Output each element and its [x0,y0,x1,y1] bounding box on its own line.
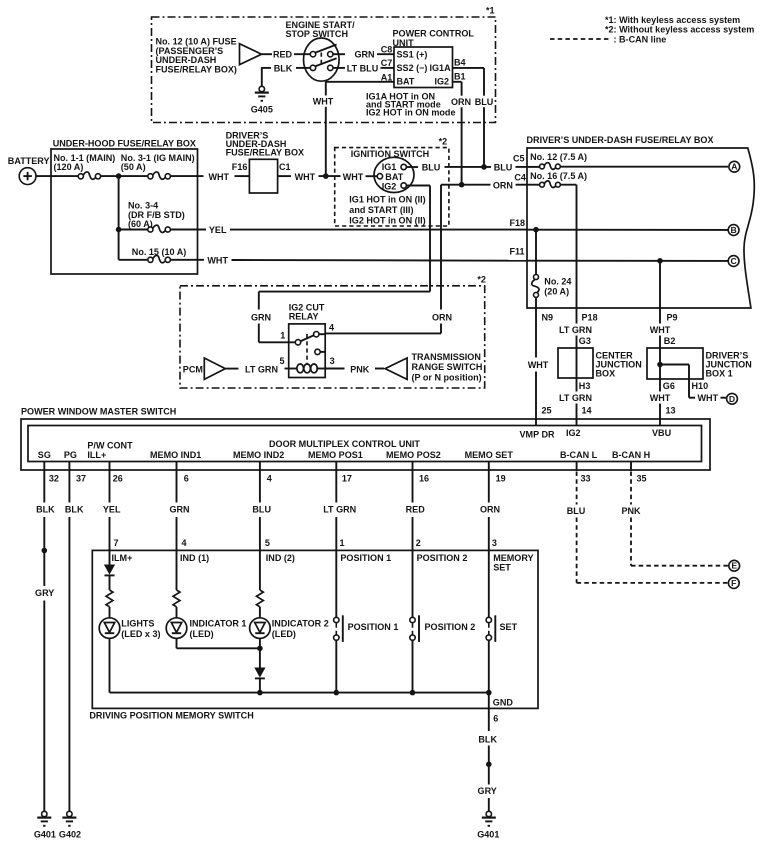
svg-text:33: 33 [581,474,591,484]
svg-text:13: 13 [666,405,676,415]
svg-text:GND: GND [493,697,514,707]
wire IG2 to relay (GRN) [251,186,430,343]
fuse No.1-1 (MAIN) 120A [54,153,116,179]
fuse No.12 7.5A [527,152,587,169]
pin C8 [381,45,393,55]
svg-text:3: 3 [330,356,335,366]
pin GND / 6 [489,693,514,731]
wire WHT row1 to F16 [170,172,249,182]
svg-text:SET: SET [493,563,511,573]
power window master switch box [21,407,710,470]
ground G401 (center) [477,811,499,839]
svg-text:GRY: GRY [478,786,497,796]
pin C7 [381,58,393,68]
pin B2 [664,336,676,346]
connector B [728,225,739,236]
svg-text:WHT: WHT [208,172,229,182]
transmission range switch triangle [385,352,482,383]
svg-text:LT GRN: LT GRN [559,325,592,335]
wire lights to gnd bus [109,638,111,692]
svg-text:VBU: VBU [652,428,671,438]
wire stub SG pin 32 / wire BLK GRY to G401 [35,462,59,812]
svg-text:BLU: BLU [252,505,271,515]
svg-text:(120 A): (120 A) [54,162,84,172]
power control unit U1 [393,29,475,88]
svg-text:7: 7 [114,538,119,548]
svg-text:STOP SWITCH: STOP SWITCH [286,29,349,39]
svg-text:SS2 (−): SS2 (−) [397,63,428,73]
wire indicator1 to junction [177,638,260,648]
svg-text:LT GRN: LT GRN [323,505,356,515]
wire GRN [333,50,394,60]
svg-text:DOOR MULTIPLEX CONTROL UNIT: DOOR MULTIPLEX CONTROL UNIT [269,439,420,449]
svg-text:*1: With keyless access system: *1: With keyless access system [605,15,740,25]
svg-text:No. 24: No. 24 [544,276,571,286]
wire BAT to A1 [326,80,394,82]
svg-text:ILL+: ILL+ [87,450,106,460]
pin MEMO IND2 [233,450,284,460]
svg-text:FUSE/RELAY BOX: FUSE/RELAY BOX [226,147,304,157]
wire stub MEMO IND2 pin 4 / wire BLU [252,462,271,551]
connector F [728,578,739,589]
svg-text:IND (1): IND (1) [180,553,209,563]
svg-text:C1: C1 [279,162,291,172]
svg-text:No. 15 (10 A): No. 15 (10 A) [132,247,186,257]
svg-text:WHT: WHT [207,256,228,266]
svg-text:(50 A): (50 A) [121,162,146,172]
svg-text:25: 25 [542,405,552,415]
svg-text:B2: B2 [664,336,676,346]
pin 5 IND (2) [265,538,295,563]
svg-text:B: B [730,225,736,235]
svg-text:5: 5 [265,538,270,548]
svg-text:YEL: YEL [103,505,121,515]
wire stub MEMO SET pin 19 / wire ORN [480,462,506,551]
svg-text:WHT: WHT [343,172,364,182]
svg-text:GRN: GRN [354,50,374,60]
LED indicator 2 [250,618,329,639]
svg-text:5: 5 [280,356,285,366]
svg-text:DRIVER’S UNDER-DASH FUSE/RELAY: DRIVER’S UNDER-DASH FUSE/RELAY BOX [527,135,714,145]
svg-text:G3: G3 [579,336,591,346]
svg-text:IG2: IG2 [435,77,450,87]
svg-text:4: 4 [267,474,272,484]
svg-text:(LED): (LED) [190,629,214,639]
driving position memory switch box [89,550,538,720]
svg-text:RED: RED [273,50,293,60]
enclosure box *2 (IG2 cut relay, dash-dot) [180,275,486,388]
svg-text:A1: A1 [381,72,393,82]
svg-text:P9: P9 [667,313,678,323]
pin G6 / wire WHT to pin 13 [650,379,676,426]
pin A1 [381,72,393,82]
note legend *1 [605,15,740,25]
svg-text:BLK: BLK [274,63,293,73]
svg-text:No. 12 (7.5 A): No. 12 (7.5 A) [530,152,587,162]
enclosure box *1 (keyless access system, dash-dot) [152,6,496,123]
pin 1 POSITION 1 [340,538,392,563]
center junction box [558,348,642,378]
svg-text:: B-CAN line: : B-CAN line [614,35,667,45]
driver's under-dash fuse/relay box (main) [527,135,755,308]
wire stub MEMO POS1 pin 17 / wire LT GRN [323,462,356,551]
svg-text:IG1: IG1 [382,162,397,172]
svg-text:INDICATOR 1: INDICATOR 1 [190,619,247,629]
wire to connector A [560,166,728,168]
pin F18 / wire to connector B [510,218,729,233]
svg-text:MEMO POS1: MEMO POS1 [308,450,363,460]
pin 2 POSITION 2 [416,538,468,563]
under-hood fuse/relay box [51,138,198,274]
svg-text:D: D [729,394,735,404]
svg-text:POSITION 1: POSITION 1 [348,622,399,632]
wire F18 down to fuse No.24 [535,230,537,275]
LED lights (LED x 3) [99,618,160,639]
svg-text:WHT: WHT [295,172,316,182]
pin MEMO POS1 [308,450,363,460]
pin MEMO IND1 [150,450,201,460]
diode D2 [254,668,265,693]
svg-text:ORN: ORN [480,505,500,515]
pin MEMO SET [465,450,514,460]
pin B-CAN H [612,450,650,460]
svg-text:RANGE SWITCH: RANGE SWITCH [412,362,483,372]
wire stub B-CAN L pin 33 / dashed BLU to connector F [567,462,728,583]
svg-text:WHT: WHT [650,393,671,403]
driver's junction box 1 [647,348,752,379]
svg-text:PG: PG [64,450,77,460]
svg-text:C5: C5 [513,153,525,163]
svg-text:IND (2): IND (2) [266,553,295,563]
svg-text:BLU: BLU [494,162,513,172]
svg-text:G405: G405 [251,104,273,114]
svg-text:BOX: BOX [596,368,616,378]
svg-text:LT GRN: LT GRN [245,364,278,374]
wire / junction [101,173,148,179]
svg-text:G6: G6 [663,381,675,391]
pin VMP DR [520,429,555,439]
svg-text:IG1A: IG1A [430,63,452,73]
ground G401 (left) [34,811,56,839]
switch POSITION 2 [410,550,475,692]
svg-text:C: C [730,256,736,266]
pin B1 / wire ORN down [451,72,471,185]
svg-text:ORN: ORN [493,180,513,190]
svg-text:BAT: BAT [397,77,415,87]
pin C4 / wire ORN [441,173,527,191]
pin 4 IND (1) [180,538,209,563]
wire stub MEMO IND1 pin 6 / wire GRN [169,462,189,551]
pin F11 / wire to connector C [510,246,729,263]
svg-text:26: 26 [113,474,123,484]
svg-text:BLK: BLK [478,734,497,744]
svg-text:ILM+: ILM+ [112,553,133,563]
ground bus wire [110,690,492,696]
svg-text:35: 35 [637,474,647,484]
svg-text:IG2 HOT in ON (II): IG2 HOT in ON (II) [349,215,425,225]
fuse No.15 10A [119,247,187,263]
pin C5 [513,153,525,163]
svg-text:IG1 HOT in ON (II): IG1 HOT in ON (II) [349,194,425,204]
svg-text:19: 19 [496,474,506,484]
resistor R2 (indicator 1) [173,550,180,617]
pin B-CAN L [560,450,598,460]
pin B4 / wire BLU down [453,58,494,167]
svg-text:B1: B1 [454,72,466,82]
svg-text:F: F [731,578,736,588]
fuse No.3-4 (DR F/B STD) 60A [119,201,185,233]
svg-text:MEMO SET: MEMO SET [465,450,514,460]
pin P/W CONT ILL+ [87,440,133,460]
wire indicator2 down / junction [257,638,263,667]
wire BLK to ground [262,63,311,86]
wire WHT from switch down [313,82,334,176]
svg-text:E: E [731,561,737,571]
svg-text:C4: C4 [514,173,526,183]
engine start/stop switch [286,20,356,81]
svg-text:(LED x 3): (LED x 3) [121,629,160,639]
pin IG2 [566,428,581,438]
wire stub ILL+ pin 26 / wire YEL [103,462,123,551]
svg-text:4: 4 [182,538,187,548]
svg-text:1: 1 [340,538,345,548]
wire RED [262,50,311,60]
svg-text:TRANSMISSION: TRANSMISSION [412,352,481,362]
wire stub PG pin 37 / wire BLK to G402 [65,462,86,812]
wire BLK GRY to G401 (center) [478,734,498,811]
svg-text:B4: B4 [454,58,466,68]
pin 7 ILM+ [112,538,133,563]
svg-text:F16: F16 [232,162,248,172]
svg-text:INDICATOR 2: INDICATOR 2 [272,619,329,629]
svg-text:32: 32 [49,474,59,484]
svg-text:P18: P18 [582,313,598,323]
wire battery to fuse row 1 [36,175,78,177]
svg-text:G402: G402 [59,829,81,839]
wire stub MEMO POS2 pin 16 / wire RED [406,462,429,551]
svg-text:LT BLU: LT BLU [347,63,379,73]
svg-text:16: 16 [419,474,429,484]
pin C1 [279,162,291,172]
pin P18 / wire LT GRN [559,308,598,348]
svg-text:2: 2 [416,538,421,548]
legend B-CAN line sample [550,35,666,45]
svg-text:MEMORY: MEMORY [493,553,533,563]
IG2 cut relay [280,302,335,377]
pin MEMO POS2 [386,450,441,460]
svg-text:17: 17 [342,474,352,484]
note IG1A HOT [366,92,455,118]
svg-text:C8: C8 [381,45,393,55]
svg-text:4: 4 [329,323,334,333]
svg-text:MEMO POS2: MEMO POS2 [386,450,441,460]
pin N9 / wire WHT to pin 25 [528,308,553,426]
svg-text:UNDER-HOOD FUSE/RELAY BOX: UNDER-HOOD FUSE/RELAY BOX [53,138,196,148]
svg-text:IG2: IG2 [382,182,397,192]
svg-text:6: 6 [184,474,189,484]
svg-text:and START (III): and START (III) [349,205,413,215]
svg-text:C7: C7 [381,58,393,68]
svg-text:BOX 1: BOX 1 [706,368,733,378]
diode D1 (ILM+) [104,550,115,590]
svg-text:POSITION 2: POSITION 2 [425,622,476,632]
svg-text:BAT: BAT [385,172,403,182]
svg-text:1: 1 [280,331,285,341]
svg-text:(P or N position): (P or N position) [412,372,482,382]
svg-text:N9: N9 [542,313,554,323]
pin 3 MEMORY SET [492,538,534,573]
PCM triangle [183,358,226,379]
svg-text:ORN: ORN [451,97,471,107]
wire C4 to P18 [560,185,576,308]
svg-text:MEMO IND2: MEMO IND2 [233,450,284,460]
ground G405 [251,86,273,114]
ignition switch enclosure (dashed, *2) [335,136,449,226]
note ignition hot [349,194,425,225]
svg-text:RELAY: RELAY [289,312,319,322]
LED indicator 1 [166,618,246,639]
note legend *2 [605,25,754,35]
svg-text:POSITION 2: POSITION 2 [417,553,468,563]
wire WHT C1 to ignition BAT [278,172,378,182]
svg-text:VMP DR: VMP DR [520,429,555,439]
label No.12 fuse (passenger's under-dash fuse/relay box) [156,37,237,75]
svg-text:PCM: PCM [183,364,203,374]
pin H3 / wire LT GRN to pin 14 [559,378,592,426]
svg-text:GRN: GRN [251,312,271,322]
fuse No.24 20A (vertical) [532,275,572,298]
svg-text:RED: RED [406,505,426,515]
connector C [728,256,739,267]
fuse No.12 triangle symbol [240,44,262,65]
svg-text:FUSE/RELAY BOX): FUSE/RELAY BOX) [156,65,237,75]
svg-text:DRIVING POSITION MEMORY SWITCH: DRIVING POSITION MEMORY SWITCH [89,711,253,721]
svg-text:A: A [731,162,737,172]
connector D [727,393,738,404]
svg-text:*1: *1 [486,6,495,16]
svg-text:F11: F11 [510,246,525,256]
wire LT BLU [333,63,394,73]
svg-text:GRY: GRY [35,588,54,598]
svg-text:WHT: WHT [698,393,719,403]
wire PNK from relay pin3 [325,364,384,374]
svg-text:6: 6 [493,714,498,724]
wire BLU from IG1 [406,162,527,172]
resistor R1 (lights) [106,590,113,618]
svg-text:POSITION 1: POSITION 1 [340,553,391,563]
svg-text:B-CAN H: B-CAN H [612,450,650,460]
wire to N9 [535,297,537,308]
svg-text:POWER WINDOW MASTER SWITCH: POWER WINDOW MASTER SWITCH [21,407,176,417]
svg-text:PNK: PNK [621,506,641,516]
wire LT GRN to relay pin5 [225,364,288,374]
door multiplex control unit box [28,426,702,462]
wire vertical bus in under-hood box [116,176,122,260]
svg-text:SS1 (+): SS1 (+) [397,49,428,59]
battery [8,156,50,185]
pin VBU [652,428,671,438]
svg-text:IG2: IG2 [566,428,581,438]
svg-text:37: 37 [76,474,86,484]
pin SG [38,450,51,460]
svg-text:SET: SET [500,622,518,632]
connector A [729,161,740,172]
svg-text:*2: *2 [439,136,448,146]
svg-text:(20 A): (20 A) [544,287,569,297]
pin H10 / wire WHT to connector D [689,379,726,403]
wire YEL row2 to F18 [170,225,527,235]
pin G3 [579,336,591,346]
svg-text:B-CAN L: B-CAN L [560,450,598,460]
wire stub B-CAN H pin 35 / dashed PNK to connector E [621,462,728,566]
svg-text:WHT: WHT [650,325,671,335]
svg-text:No. 16 (7.5 A): No. 16 (7.5 A) [530,171,587,181]
svg-text:*2: Without keyless access sys: *2: Without keyless access system [605,25,754,35]
pin P9 / wire WHT [650,308,678,348]
svg-text:G401: G401 [477,829,499,839]
svg-text:ORN: ORN [432,312,452,322]
resistor R3 (indicator 2) [257,550,264,617]
connector E [729,560,740,571]
switch POSITION 1 [334,550,399,692]
svg-text:(LED): (LED) [272,629,296,639]
svg-text:H10: H10 [692,381,709,391]
wire WHT row3 to F11 [170,256,527,266]
svg-text:BLK: BLK [65,505,84,515]
svg-text:BLK: BLK [36,505,55,515]
pin F16 [232,162,248,172]
svg-text:IG2 HOT in ON mode: IG2 HOT in ON mode [366,107,455,117]
switch SET [486,550,517,692]
svg-text:BATTERY: BATTERY [8,156,50,166]
svg-text:BLU: BLU [567,506,586,516]
fuse No.3-1 (IG MAIN) 50A [121,153,195,179]
svg-text:14: 14 [582,405,592,415]
svg-text:LIGHTS: LIGHTS [121,619,154,629]
svg-text:P/W CONT: P/W CONT [87,440,133,450]
pin PG [64,450,77,460]
fuse No.16 7.5A [527,171,587,188]
wire ORN relay pin4 [325,185,452,334]
svg-text:PNK: PNK [350,364,370,374]
svg-text:H3: H3 [579,381,591,391]
svg-text:WHT: WHT [313,96,334,106]
svg-text:*2: *2 [477,275,486,285]
svg-text:F18: F18 [510,218,526,228]
svg-text:SG: SG [38,450,51,460]
svg-text:LT GRN: LT GRN [559,393,592,403]
svg-text:BLU: BLU [475,97,494,107]
svg-text:BLU: BLU [422,162,441,172]
svg-text:MEMO IND1: MEMO IND1 [150,450,201,460]
svg-text:YEL: YEL [209,225,227,235]
svg-text:3: 3 [492,538,497,548]
svg-text:G401: G401 [34,829,56,839]
ground G402 [59,811,81,839]
ignition switch SW1 [374,157,414,192]
driver's under-dash fuse/relay box (F16/C1) [226,130,304,193]
svg-text:WHT: WHT [528,360,549,370]
wire F11 down to P9 [659,261,661,308]
svg-text:GRN: GRN [169,505,189,515]
